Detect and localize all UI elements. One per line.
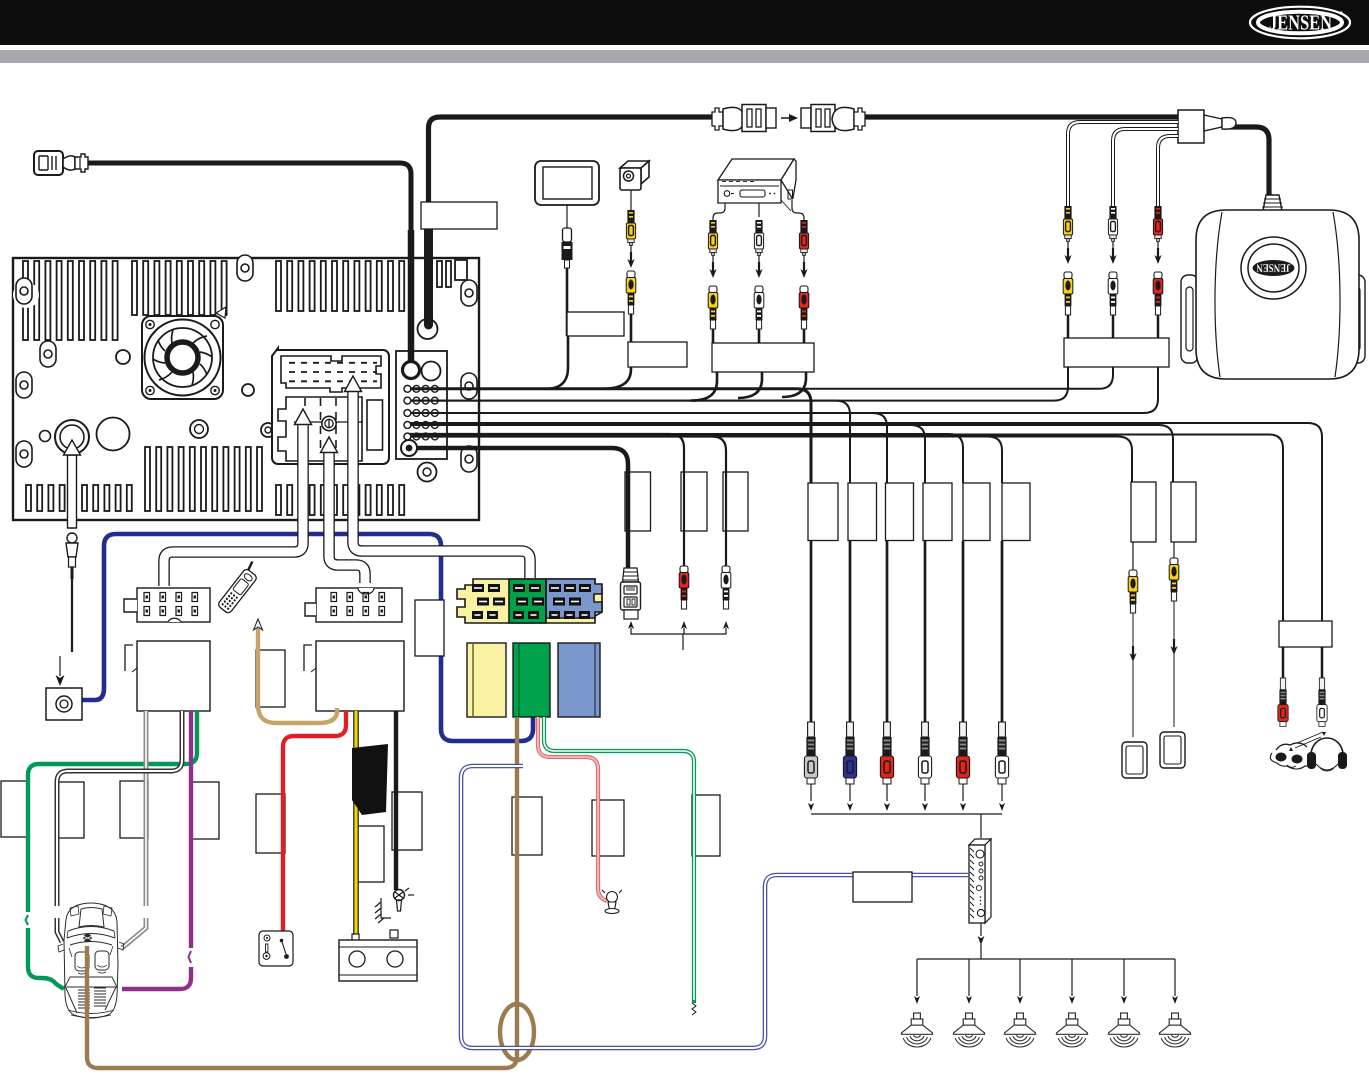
jensen pod module <box>1181 195 1365 379</box>
wire: line to jensen AV cable 2 <box>409 367 1113 389</box>
preout plug white 2 <box>995 722 1008 784</box>
wire: HDMI cable from head unit up and right <box>429 117 717 324</box>
wire: line to drop 3 <box>409 413 887 483</box>
wire: six preout cables below boxes <box>810 541 813 723</box>
JENSEN logo top right <box>1250 7 1350 39</box>
ringed RCA jack top-left of panel (usb cable end) <box>403 362 420 379</box>
black fuse silhouette <box>352 744 388 815</box>
brown SWC wire with loop <box>87 717 534 1068</box>
wire: dvd branch 3 <box>782 372 806 397</box>
dvd hook wires <box>713 203 725 220</box>
wire: line to far right drop C (x1322) <box>409 423 1322 621</box>
headphone jack white <box>1317 678 1327 726</box>
label boxes for tan/red/yellow/black/brown/pink/green wires (wires over) <box>256 650 720 882</box>
jensen module AV plugs <box>1063 206 1073 315</box>
bulb icon <box>602 890 622 914</box>
ISO block left <box>137 641 210 711</box>
amp to speakers <box>917 923 1175 996</box>
bottom thick output jack on RCA panel <box>401 440 417 456</box>
right 8-pin connector <box>305 588 402 622</box>
wire: far right cables to plugs <box>1282 647 1285 681</box>
small plain circles <box>97 418 130 451</box>
wire: line to right drop B (x1132) <box>409 437 1132 483</box>
colored ISO strip connector <box>457 579 602 623</box>
yellow harness block <box>467 643 506 717</box>
fan <box>142 307 226 399</box>
wire: line to far right drop D (x1283) <box>409 435 1283 622</box>
bracket under six plugs <box>811 784 1002 838</box>
wire: dvd branch 2 <box>738 372 762 398</box>
s-video connector + red/white jacks with bracket <box>621 568 641 619</box>
antenna jack <box>55 420 89 454</box>
wire: dvd branch 1 <box>691 372 717 401</box>
HDMI plug B <box>801 105 865 132</box>
light blue amp-remote pair <box>461 766 968 1048</box>
car top view <box>58 903 124 1018</box>
antenna adapter box <box>46 688 82 720</box>
DVD yellow/white/red plugs <box>708 220 718 348</box>
splitter AV leads (double-line) <box>1068 122 1178 206</box>
wire: camera branch <box>602 367 631 389</box>
label boxes right video drops <box>1131 482 1156 542</box>
wire: drop to white jack x726 <box>409 437 726 569</box>
headphone plug red <box>1278 678 1288 726</box>
wire: HDMI cable from second plug to splitter <box>862 114 1180 119</box>
gray divider bar <box>0 50 1369 63</box>
battery icon <box>339 930 417 981</box>
wire: line to drop 4 <box>409 425 925 483</box>
right thin video lines with arrows <box>1133 601 1174 737</box>
main harness connector block <box>272 348 389 464</box>
yellow battery wire <box>353 711 359 934</box>
top black banner <box>0 0 1369 45</box>
headphones icons <box>1270 732 1347 771</box>
wire: blue power-antenna lead <box>82 534 533 741</box>
antenna jack white arrow + motor antenna plug <box>64 440 81 652</box>
wire brown SWC with loop <box>87 717 517 1068</box>
wire: jensen AV cables above box <box>1067 315 1070 340</box>
wire: USB cable from plug to head unit <box>88 163 411 362</box>
wire: right pair cables below boxes (thin) <box>1132 542 1134 570</box>
preout plug red <box>880 722 893 784</box>
chassis AV connector circle (hdmi cable end) <box>418 319 438 339</box>
label boxes speaker wires <box>1 781 29 837</box>
label boxes preout drops <box>808 483 838 541</box>
black ground wire <box>394 711 398 890</box>
six preout plugs <box>804 722 817 784</box>
screw posts <box>13 282 39 308</box>
DVD player icon <box>713 159 804 220</box>
USB plug top-left <box>34 151 88 175</box>
wire: line to right drop A (x1173) <box>409 425 1173 482</box>
label box blue wire <box>415 600 444 656</box>
heatsink fins top-left group <box>0 0 1 1</box>
wire: thick sub out to s-video drop <box>417 448 628 568</box>
preout plug blue <box>843 722 856 784</box>
ground symbol <box>375 888 414 923</box>
left ISO white block <box>125 641 210 711</box>
wire: line to drop 5 <box>409 434 963 483</box>
dark speaker pair (front left) <box>57 711 182 942</box>
pink illumination wire <box>538 717 607 901</box>
wire: line to drop 2 <box>409 401 850 483</box>
speakers <box>901 1013 932 1047</box>
ribbon A to left ISO connector <box>164 424 303 586</box>
wire: drop to red jack x684 <box>409 434 684 568</box>
label box headphone cables <box>1279 621 1332 647</box>
tan phone wire <box>258 622 337 723</box>
display box B <box>1160 732 1185 768</box>
wire: line to drop 6 <box>409 437 1002 484</box>
preout plug white <box>918 722 931 784</box>
label box module AV cables <box>1064 338 1169 367</box>
label box usb/hdmi <box>421 202 497 229</box>
green speaker wire (left rear) <box>28 711 197 912</box>
trio label boxes (wires drawn over) <box>625 472 748 531</box>
wire: line to jensen AV cable 3 <box>409 367 1158 413</box>
phone icon <box>217 561 263 614</box>
RCA output panel <box>396 351 447 459</box>
camera yellow male plug + arrow + female jack <box>626 210 636 344</box>
label boxes power wires <box>256 650 285 707</box>
wire: line to jensen AV cable 1 <box>409 367 1068 401</box>
HDMI plug pair <box>712 105 776 132</box>
label box camera cable <box>628 342 687 367</box>
label box monitor cable <box>567 312 624 336</box>
blue harness block <box>558 643 600 717</box>
wire: splitter to jensen module <box>1224 127 1269 195</box>
preout plug red 2 <box>956 722 969 784</box>
thin green parking wire (double) <box>544 717 696 1015</box>
purple speaker wire (right rear) <box>189 711 193 948</box>
arrow into antenna adapter box <box>56 675 65 686</box>
ignition switch icon <box>259 931 293 966</box>
wire: video out line to drop 1 <box>409 389 811 483</box>
green harness block <box>513 643 550 717</box>
splitter connector <box>1178 110 1236 143</box>
label box dvd cables <box>712 343 814 372</box>
camera cube icon <box>620 161 649 210</box>
ISO block right <box>316 641 404 711</box>
ribbon B to right ISO connector <box>329 452 365 583</box>
gray speaker pair (front right) <box>122 711 146 948</box>
rear monitor icon <box>535 161 599 336</box>
right ISO white block <box>304 641 404 711</box>
4 speaker label boxes (wires over) <box>1 781 219 839</box>
small display boxes <box>1122 742 1147 778</box>
left 8-pin connector <box>124 588 210 622</box>
red ACC wire <box>283 711 346 932</box>
wire: monitor branch <box>546 336 568 389</box>
ribbon C to colored strip connector <box>353 391 530 578</box>
label box on blue pair <box>853 872 912 902</box>
chassis outline <box>13 258 479 520</box>
